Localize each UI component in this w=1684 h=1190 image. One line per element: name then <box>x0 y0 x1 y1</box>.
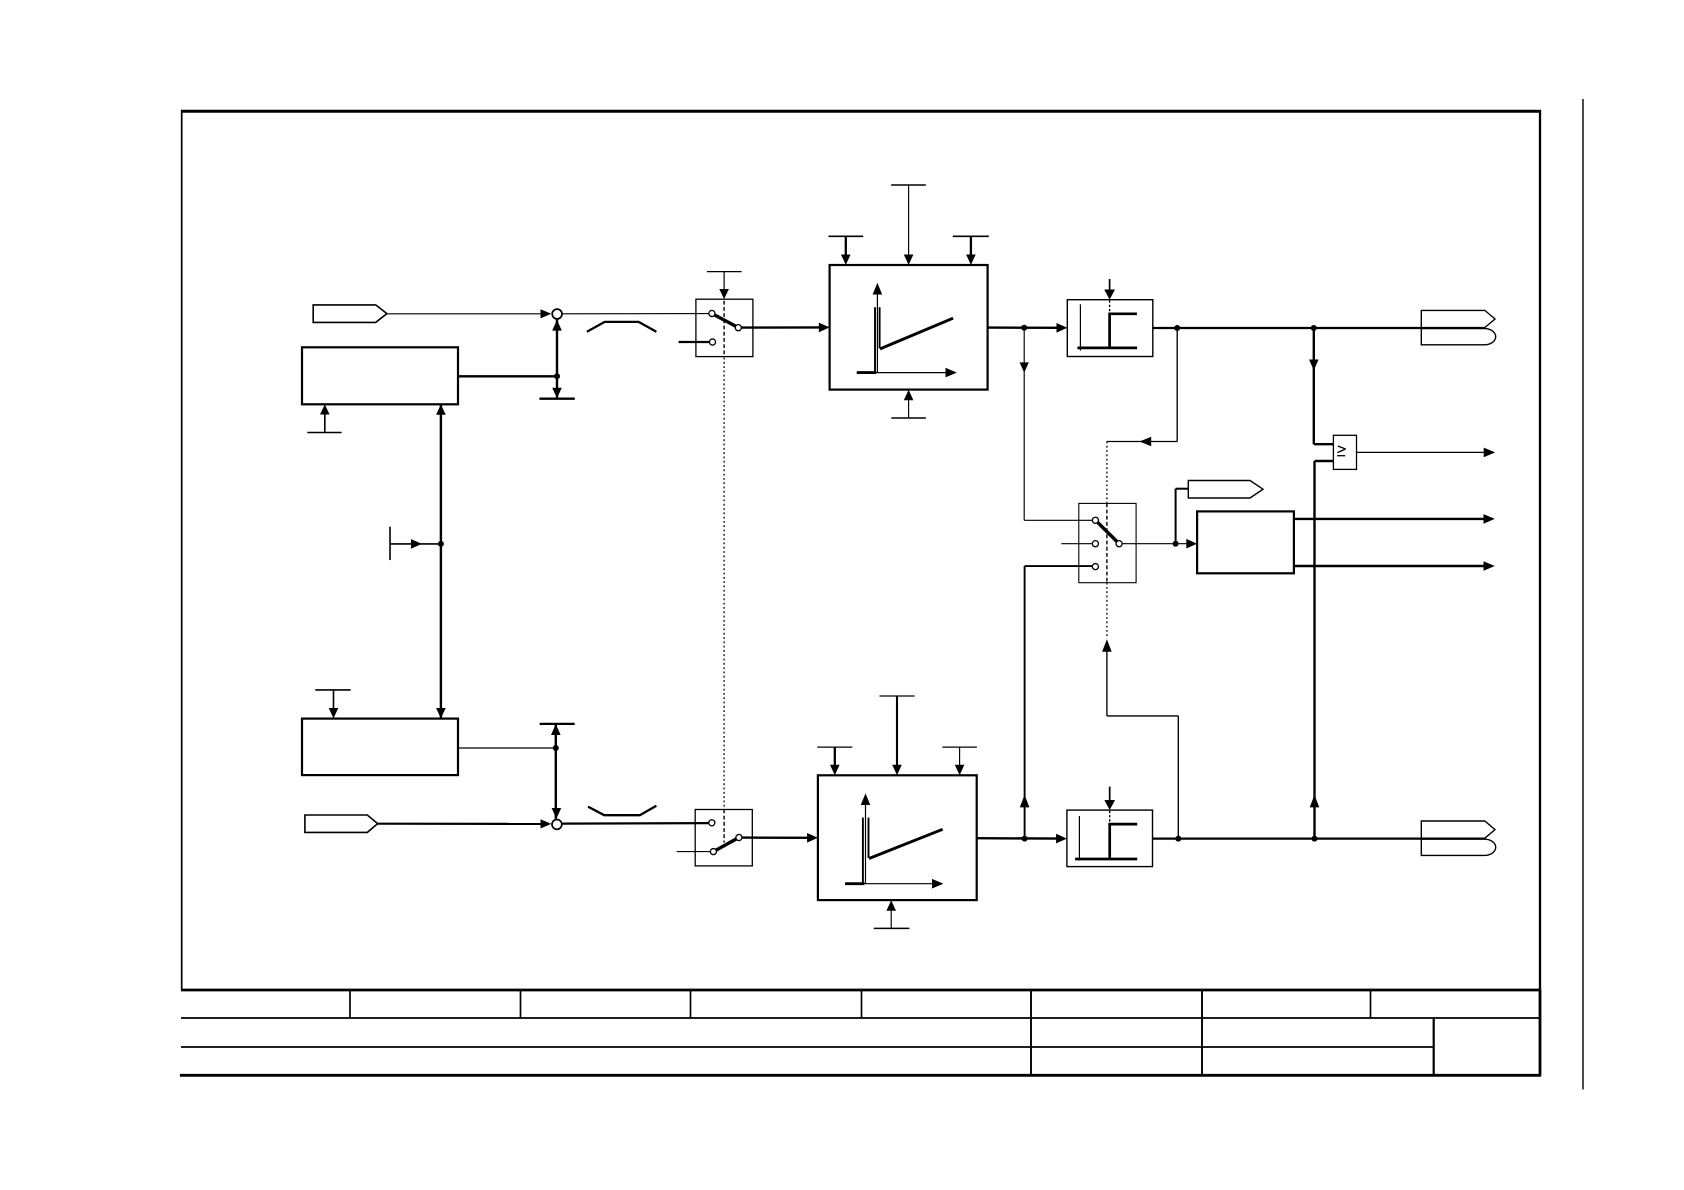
parameter T-bar into B2 top <box>315 690 350 719</box>
setpoint arrow into L1 top <box>1104 279 1115 300</box>
summing junction S4 (bottom) <box>552 820 562 830</box>
OR gate input wire from node B (top) <box>1309 328 1333 444</box>
scaling block B2 (bottom left) <box>302 719 458 776</box>
setpoint arrow into L2 top <box>1104 787 1115 810</box>
node on feedback wire (top) <box>554 373 560 379</box>
input connector flag X1 (top speed setpoint) <box>313 305 387 323</box>
changeover switch S2 (top) <box>679 299 753 356</box>
wire L2 to output connector (bottom) <box>1153 837 1422 839</box>
wire block B1 output to node <box>458 375 557 377</box>
node top main line A <box>1174 325 1180 331</box>
node bottom main line B <box>1312 836 1318 842</box>
node at RFG1 output (top) <box>1021 325 1027 331</box>
output connector Y2 (bottom) <box>1421 821 1495 855</box>
control wire from bottom node to S3 <box>1102 639 1178 838</box>
wire summing point to switch (top) <box>563 313 709 315</box>
feedback wire above summing point (bottom) <box>551 724 561 819</box>
output connector Y1 (top) <box>1421 310 1495 344</box>
changeover switch S3 (middle right) <box>1061 503 1136 582</box>
parameter T-bar upper-left of RFG2 <box>817 747 852 775</box>
OR gate output wire <box>1357 448 1496 458</box>
parameter bar below node (top) <box>539 398 574 400</box>
OR gate input wire from bottom node <box>1310 461 1334 839</box>
node at RFG2 output (bottom) <box>1022 836 1028 842</box>
wire vertical bus between B1 and B2 <box>436 404 446 718</box>
wire block B2 output to node <box>458 747 556 749</box>
limiter L1 (top) <box>1067 300 1153 357</box>
RFG2 characteristic icon <box>845 793 943 888</box>
wire switch S2 to ramp-function generator <box>741 323 829 333</box>
wire flag X1 to summing point <box>387 313 546 315</box>
status output wire 1 <box>1294 514 1495 524</box>
wire L1 to output connector (top) <box>1153 327 1422 329</box>
wire node A down to mid switch top contact <box>1020 328 1093 520</box>
status block B3 (right) <box>1197 511 1294 573</box>
node bottom main line A <box>1175 836 1181 842</box>
ramp-function generator RFG1 (top) <box>830 265 988 390</box>
title block <box>180 990 1541 1075</box>
wire flag X2 to summing point <box>378 823 546 825</box>
dashed control line between switches <box>723 301 725 357</box>
L1 limiter icon <box>1077 301 1137 351</box>
node on vertical bus <box>438 541 444 547</box>
summing junction S1 (top) <box>552 309 562 319</box>
control wire from node A to S3 (dashed) <box>1107 328 1177 638</box>
OR gate U1 <box>1333 435 1356 469</box>
wire RFG1 to limiter (top) <box>988 323 1068 333</box>
node top main line B <box>1311 325 1317 331</box>
parameter T-bar below RFG1 <box>891 390 926 418</box>
parameter T-bar top-middle of RFG1 <box>891 185 926 265</box>
scaling block B1 (top left) <box>302 347 458 404</box>
wire RFG2 to limiter (bottom) <box>977 834 1067 844</box>
wire switch S5 to ramp-function generator <box>742 833 818 843</box>
wire summing point to switch (bottom) <box>563 822 710 825</box>
parameter T-bar top-middle of RFG2 <box>880 696 915 775</box>
parameter T-bar above top switch <box>707 272 742 300</box>
wire bottom node up to mid switch bottom contact <box>1020 566 1093 839</box>
node on feedback wire (bottom) <box>553 745 559 751</box>
parameter bar above node (bottom) <box>540 723 575 725</box>
limiter L2 (bottom) <box>1067 810 1153 867</box>
right margin rule <box>1582 99 1584 1090</box>
input connector flag X2 (bottom) <box>305 815 378 832</box>
parameter T-bar upper-right of RFG1 <box>953 236 989 265</box>
parameter input T-bar into B1 bottom <box>307 404 341 432</box>
changeover switch S5 (bottom) <box>677 810 753 866</box>
parameter T-bar below RFG2 <box>874 900 910 928</box>
smoothing characteristic symbol (top) <box>587 322 657 332</box>
drawing frame <box>181 110 1541 990</box>
node at S3 output <box>1173 541 1179 547</box>
status output wire 2 <box>1294 561 1495 571</box>
ramp-function generator RFG2 (bottom) <box>818 775 977 900</box>
RFG1 characteristic icon <box>857 283 957 378</box>
feedback wire below summing point (top) <box>552 320 562 399</box>
parameter T-bar upper-left of RFG1 <box>829 236 864 265</box>
L2 limiter icon <box>1075 811 1137 861</box>
parameter T-bar upper-right of RFG2 <box>942 747 977 775</box>
terminal input into vertical bus <box>390 527 441 560</box>
connector flag X3 feeding S3 output node <box>1176 481 1263 544</box>
wire S3 output to status block <box>1122 539 1197 549</box>
smoothing characteristic symbol (bottom) <box>588 806 656 815</box>
